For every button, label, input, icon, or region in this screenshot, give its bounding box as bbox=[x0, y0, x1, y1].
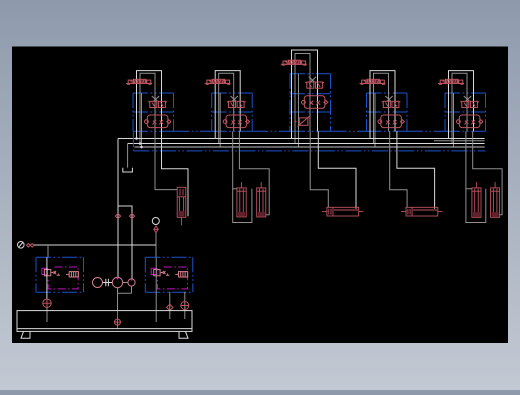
blue phantom manifold outline, lower run bbox=[133, 150, 485, 152]
pilot operated check valve pair CV1 bbox=[145, 115, 171, 128]
wire: station 3 drain leg to L bus bbox=[298, 74, 300, 147]
directional control valve DV2 (red symbol with solenoids) bbox=[205, 79, 231, 84]
red pump symbol in PB2 bbox=[154, 270, 170, 276]
directional control valve DV5 (red symbol with solenoids) bbox=[438, 79, 464, 84]
wire: station5 return line bbox=[473, 131, 502, 215]
main pump P1 (circle) bbox=[112, 277, 122, 287]
wire: suction header line bbox=[34, 244, 156, 246]
reservoir tank outline bbox=[17, 311, 192, 332]
wire: drop into pump block 1 bbox=[47, 245, 49, 257]
shuttle/solenoid cartridge valve SV3 (two red squares) bbox=[305, 82, 324, 88]
wire junction node above shuttle valve, station 5 bbox=[464, 96, 471, 101]
wire: station 4 drain leg to L bus bbox=[374, 93, 376, 147]
manifold block MB4 (blue phantom box) bbox=[367, 93, 408, 131]
directional control valve DV4 (red symbol with solenoids) bbox=[360, 79, 386, 84]
wire: pump suction down into tank bbox=[118, 286, 132, 311]
wire: station4 return line bbox=[397, 131, 435, 209]
duplex return filter F2b (vertical, red) bbox=[257, 182, 266, 217]
pressure gauge G1 bbox=[152, 218, 159, 225]
filler/breather cap symbol bbox=[181, 302, 189, 310]
wire: station1 drain to filter bbox=[155, 131, 177, 189]
wire: jog between risers bbox=[118, 206, 132, 279]
wire: filler line to tank bbox=[184, 292, 186, 319]
flow control valve FC3 (extra red square with arrow) bbox=[295, 116, 311, 127]
wire: inner B-line loop of station 2 bbox=[219, 73, 234, 143]
wire: tank bus T line bbox=[128, 143, 485, 145]
tank drain valve (red) bbox=[116, 321, 118, 323]
red motor coil symbol in PB1 bbox=[66, 272, 78, 277]
wire junction node above shuttle valve, station 2 bbox=[231, 96, 238, 101]
wire: station1 return line bbox=[162, 131, 189, 216]
wire: drain with check to tank bbox=[169, 292, 171, 319]
wire: station2 drain loop bbox=[233, 131, 252, 222]
wire junction node above shuttle valve, station 1 bbox=[152, 96, 159, 101]
directional control valve DV1 (red symbol with solenoids) bbox=[126, 79, 152, 84]
wire: inner B-line loop of station 4 bbox=[374, 73, 389, 143]
red pump symbol in PB1 bbox=[44, 270, 60, 276]
duplex return filter F5a (vertical, red) bbox=[472, 182, 481, 217]
wire: inner B-line loop of station 3 bbox=[295, 54, 310, 144]
suction strainer in tank bbox=[115, 311, 121, 329]
red motor coil symbol in PB2 bbox=[175, 272, 187, 277]
magenta pilot valve in PB1 bbox=[42, 268, 48, 274]
wire: station 5 drain leg to L bus bbox=[453, 93, 455, 147]
inline filter F3 (horizontal, red) bbox=[322, 207, 364, 216]
pressure gauge G0 at suction bbox=[18, 242, 25, 249]
wire: gauge line down to pump block 2 bbox=[155, 233, 157, 257]
manifold block MB1 (blue phantom box) bbox=[133, 93, 174, 131]
wire: station4 drain step bbox=[390, 131, 407, 207]
wire: tank return drop bbox=[127, 144, 129, 168]
pilot operated check valve pair CV2 bbox=[223, 115, 249, 128]
wire: link between pumps bbox=[123, 282, 128, 284]
pump block PB1 (blue phantom box) bbox=[36, 257, 84, 292]
shuttle/solenoid cartridge valve SV1 (two red squares) bbox=[148, 101, 167, 107]
return filter F1 (vertical, red) bbox=[177, 187, 186, 225]
wire: inner B-line loop of station 1 bbox=[140, 73, 155, 143]
red orifice pair next to gauge bbox=[27, 243, 35, 247]
wire: station3 drain step bbox=[310, 131, 328, 207]
manifold block MB5 (blue phantom box) bbox=[445, 93, 486, 131]
inline filter F4 (horizontal, red) bbox=[401, 207, 443, 216]
check valve on aux riser bbox=[129, 214, 134, 219]
wire junction node above shuttle valve, station 4 bbox=[385, 96, 392, 101]
wire: pump pressure riser (P) down to main pump bbox=[117, 139, 119, 278]
drawing canvas (black model space) bbox=[12, 47, 508, 344]
tank left foot bbox=[21, 331, 30, 338]
magenta subassembly outline in PB2 bbox=[157, 267, 187, 289]
shuttle/solenoid cartridge valve SV5 (two red squares) bbox=[460, 101, 479, 107]
gauge shutoff valve (red bowtie) bbox=[154, 226, 158, 233]
tank symbol under return drop bbox=[123, 168, 133, 172]
wire: suction drop through pump block 1 into tank bbox=[46, 257, 48, 299]
wire: station 1 drain leg to L bus bbox=[141, 93, 143, 147]
wire: outer A-line loop of station 4 bbox=[370, 71, 395, 139]
wire junction node above shuttle valve, station 3 bbox=[309, 77, 316, 82]
wire: short return segment at right bbox=[434, 140, 485, 142]
wire: station3 return line bbox=[318, 131, 356, 209]
manifold block MB3 (blue phantom box) bbox=[290, 74, 331, 132]
magenta subassembly outline in PB1 bbox=[48, 267, 78, 289]
shaft coupling bbox=[103, 279, 113, 286]
shuttle/solenoid cartridge valve SV4 (two red squares) bbox=[382, 101, 401, 107]
directional control valve DV3 (red symbol with solenoids) bbox=[281, 60, 307, 65]
junction dots on S1 bus taps bbox=[135, 137, 143, 148]
pilot operated check valve pair CV3 bbox=[302, 96, 328, 109]
wire: outer A-line loop of station 2 bbox=[215, 71, 240, 139]
wire: drain from pump block 2 into tank (left) bbox=[155, 257, 157, 322]
wire: station2 return line bbox=[239, 131, 269, 215]
wire: pressure bus P line bbox=[118, 138, 485, 140]
blue phantom manifold outline, upper run bbox=[133, 131, 445, 151]
check valve on tank drain bbox=[167, 304, 173, 310]
idler/coupling circle bbox=[93, 278, 103, 288]
pilot operated check valve pair CV4 bbox=[378, 115, 404, 128]
breather/strainer symbol above tank on line 1 bbox=[43, 299, 51, 307]
wire: inner B-line loop of station 5 bbox=[452, 73, 467, 143]
wire: line 1 into tank bbox=[46, 307, 48, 322]
aux pump P2 (small circle) bbox=[128, 279, 135, 286]
wire: drain bus L line bbox=[135, 146, 485, 148]
pilot operated check valve pair CV5 bbox=[457, 115, 483, 128]
wire: station5 drain loop bbox=[466, 131, 486, 222]
wire: outer A-line loop of station 3 bbox=[292, 50, 318, 139]
wire: outer A-line loop of station 1 bbox=[137, 71, 162, 139]
magenta pilot valve in PB2 bbox=[151, 268, 157, 274]
tank right foot bbox=[179, 331, 188, 338]
pump block PB2 (blue phantom box) bbox=[145, 257, 193, 292]
wire: outer A-line loop of station 5 bbox=[449, 71, 474, 139]
manifold block MB2 (blue phantom box) bbox=[212, 93, 253, 131]
duplex return filter F2a (vertical, red) bbox=[237, 182, 246, 217]
wire: station 2 drain leg to L bus bbox=[219, 93, 221, 147]
check valve on main riser bbox=[115, 214, 120, 219]
duplex return filter F5b (vertical, red) bbox=[491, 182, 500, 217]
shuttle/solenoid cartridge valve SV2 (two red squares) bbox=[227, 101, 246, 107]
